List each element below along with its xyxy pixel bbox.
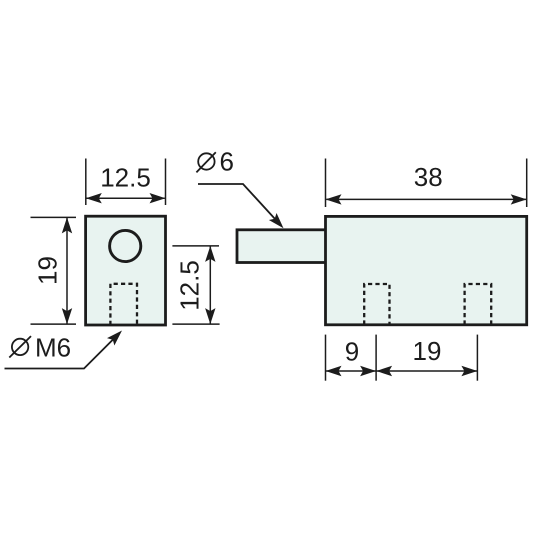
dimension 12.5 (axis height): [172, 246, 219, 324]
dimension 19 (hole spacing): [376, 335, 477, 381]
leader label Ø M6: [9, 336, 31, 357]
hidden hole 2 (dashed, side view): [465, 284, 492, 325]
svg-text:6: 6: [220, 147, 234, 177]
dimension 9 (hole offset): [326, 335, 377, 381]
threaded hole M6 (dashed, front view): [110, 284, 137, 325]
through hole Ø6 (front view circle): [110, 230, 141, 261]
svg-text:19: 19: [33, 256, 63, 285]
leader label Ø 6: [196, 152, 215, 172]
dimension 38 (body length): [326, 159, 527, 208]
svg-text:12.5: 12.5: [174, 260, 204, 311]
svg-text:9: 9: [345, 337, 359, 367]
hidden hole 1 (dashed, side view): [364, 284, 389, 325]
dimension 19 (front height): [31, 217, 77, 324]
svg-text:M6: M6: [35, 333, 71, 363]
side view body 38mm: [326, 216, 527, 324]
svg-text:19: 19: [413, 336, 442, 366]
front view body 12.5x19: [86, 216, 166, 325]
dimension 12.5 (front width): [86, 159, 166, 206]
svg-text:38: 38: [414, 162, 443, 192]
shaft Ø6 (side view stub): [237, 230, 328, 263]
svg-text:12.5: 12.5: [100, 163, 151, 193]
